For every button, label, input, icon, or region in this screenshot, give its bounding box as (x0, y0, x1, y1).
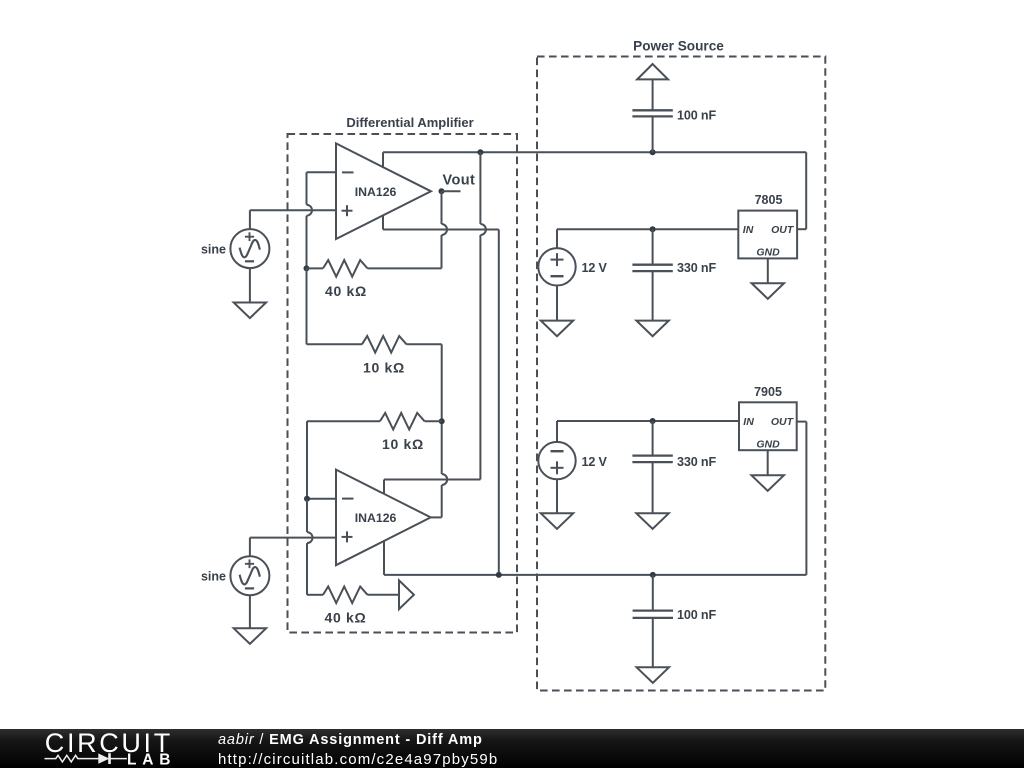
label R3 10 k&#937; (382, 436, 424, 452)
wire C2 to ground (652, 271, 654, 321)
ground below V1 (234, 303, 266, 319)
regulator U3 7805 (738, 193, 797, 258)
label C3 330 nF (677, 455, 716, 469)
label C4 100 nF (677, 608, 716, 622)
ground below C4 (637, 667, 669, 683)
wire sine1 to plus input (249, 210, 251, 229)
node junction 40k/10k left (304, 265, 310, 271)
wire U2 V+ pin stub (383, 480, 385, 495)
wire sine2 to ground (249, 595, 251, 628)
svg-text:40 kΩ: 40 kΩ (325, 283, 367, 299)
ground below 7905 (752, 475, 784, 491)
svg-text:IN: IN (743, 224, 754, 236)
wire R2 right down to U2 output (hop over U2 V+ wire) (442, 344, 448, 517)
node junction U2 minus (304, 496, 310, 502)
wire 7905 GND (767, 450, 769, 475)
wire U1 output down to R1 (hop over V- wire) (442, 191, 448, 268)
label Vout (443, 173, 476, 189)
node junction -5V rail / 100nF (650, 572, 656, 578)
svg-text:GND: GND (756, 246, 780, 258)
svg-text:INA126: INA126 (355, 185, 397, 199)
svg-text:sine: sine (201, 243, 226, 257)
resistor R1 40 k&#937; (307, 260, 442, 277)
op-amp U2 INA126 (336, 470, 431, 566)
svg-text:IN: IN (743, 416, 754, 428)
wire V4 to ground (556, 479, 558, 513)
wire C3 to ground (652, 462, 654, 513)
label V3 12 V (582, 261, 608, 275)
wire vertical minus-node to 40k (hop over plus wire) (307, 172, 313, 268)
label Power Source (633, 39, 724, 54)
dashed box: Power Source region (537, 57, 825, 691)
wire U2 minus node down to R4 (hop over plus wire) (307, 499, 313, 595)
svg-text:INA126: INA126 (355, 511, 397, 525)
wire U1 V- to -5V drop (383, 230, 499, 575)
wire U1 non-inverting input (250, 209, 336, 211)
ground below V4 (541, 513, 573, 529)
wire rail to C2 (652, 229, 654, 265)
wire flag to C1 (652, 79, 654, 110)
label C2 330 nF (677, 261, 716, 275)
svg-text:OUT: OUT (771, 224, 795, 236)
node junction 12V rail / 330nF (650, 226, 656, 232)
capacitor C2 330 nF (632, 265, 672, 271)
wire V3 to rail (556, 229, 558, 248)
svg-text:12 V: 12 V (582, 455, 608, 469)
wire minus-node down to 10k R2 (306, 268, 308, 344)
svg-text:40 kΩ: 40 kΩ (325, 610, 367, 626)
svg-text:100 nF: 100 nF (677, 108, 716, 122)
wire U2 output stub (431, 516, 442, 518)
op-amp U1 INA126 (336, 143, 431, 239)
flag at R4 output (399, 580, 414, 609)
svg-text:12 V: 12 V (582, 261, 608, 275)
node junction +5V rail / branch (477, 149, 483, 155)
wire U2 inverting input (307, 498, 336, 500)
node junction +5V rail / 100nF (650, 149, 656, 155)
ground below V3 (541, 321, 573, 337)
resistor R3 10 k&#937; (307, 413, 442, 430)
dashed box: Differential Amplifier region (288, 134, 518, 633)
svg-text:sine: sine (201, 570, 226, 584)
node junction -5V rail / U1 V- branch (496, 572, 502, 578)
wire +5V rail (U1 V+ to 7805 OUT) (383, 152, 806, 229)
resistor R4 40 k&#937; (307, 587, 399, 604)
label R4 40 k&#937; (325, 610, 367, 626)
svg-text:Power Source: Power Source (633, 39, 724, 54)
capacitor C1 100 nF (632, 110, 672, 116)
svg-text:LAB: LAB (127, 751, 173, 768)
wire 12V rail upper (557, 228, 738, 230)
wire sine1 to ground (249, 268, 251, 302)
svg-text:GND: GND (756, 438, 780, 450)
source V3 12V (538, 248, 575, 285)
wire R3 left down to U2 minus node (306, 421, 308, 499)
wire V4 to rail (556, 421, 558, 442)
svg-text:330 nF: 330 nF (677, 261, 716, 275)
wire U2 V- pin to -5V rail (383, 541, 385, 575)
svg-text:100 nF: 100 nF (677, 608, 716, 622)
label V4 12 V (582, 455, 608, 469)
svg-text:7905: 7905 (754, 385, 782, 399)
svg-text:10 kΩ: 10 kΩ (363, 360, 405, 376)
wire -5V rail (384, 422, 806, 575)
capacitor C3 330 nF (632, 456, 672, 463)
svg-text:OUT: OUT (771, 416, 795, 428)
svg-text:7805: 7805 (755, 193, 783, 207)
wire V3 to ground (556, 285, 558, 320)
label C1 100 nF (677, 108, 716, 122)
wire C1 to +5V rail (652, 116, 654, 152)
capacitor C4 100 nF (633, 611, 673, 618)
node junction lower rail / 330nF (650, 418, 656, 424)
wire lower rail to C3 (652, 421, 654, 456)
source V2 sine (201, 556, 269, 595)
wire +5V branch down to U2 V+ (hops) (384, 152, 486, 479)
wire sine2 to plus input (249, 538, 251, 557)
ground below V2 (234, 628, 266, 644)
wire 7805 GND (767, 258, 769, 283)
regulator U4 7905 (739, 385, 797, 450)
svg-text:10 kΩ: 10 kΩ (382, 436, 424, 452)
ground below 7805 (752, 283, 784, 299)
wire U2 non-inverting input (250, 537, 336, 539)
node junction R2/R3 (439, 418, 445, 424)
svg-text:Differential Amplifier: Differential Amplifier (346, 115, 473, 130)
svg-text:Vout: Vout (443, 173, 476, 189)
svg-text:330 nF: 330 nF (677, 455, 716, 469)
wire 12V rail lower (557, 420, 739, 422)
label R2 10 k&#937; (363, 360, 405, 376)
wire C4 to ground (652, 618, 654, 667)
wire Vout stub (442, 190, 461, 192)
label R1 40 k&#937; (325, 283, 367, 299)
source V4 12V inverted (538, 442, 575, 479)
wire U1 V+ pin stub (382, 152, 384, 168)
wire U1 V- pin stub (382, 215, 384, 230)
ground below C3 (636, 513, 668, 529)
resistor R2 10 k&#937; (307, 336, 442, 353)
label Differential Amplifier (346, 115, 473, 130)
ground below C2 (636, 321, 668, 337)
wire U1 inverting input (307, 171, 337, 173)
node Vout junction (439, 188, 445, 194)
source V1 sine (201, 229, 269, 268)
power flag +5V (637, 64, 668, 79)
wire -5V rail to C4 (652, 575, 654, 611)
